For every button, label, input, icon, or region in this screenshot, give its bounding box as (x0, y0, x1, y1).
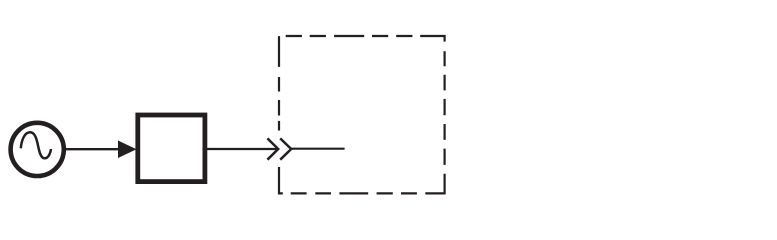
connector chevron 1 (267, 138, 278, 159)
dashed enclosure box (279, 36, 445, 193)
wire stub inside enclosure (291, 148, 344, 150)
connector chevron 2 (280, 138, 291, 159)
wire from AC source to block (63, 148, 122, 150)
signal-flow arrowhead (118, 141, 137, 159)
AC source (11, 123, 64, 176)
block (rectangular two-port) (138, 115, 205, 182)
wire from block to connector (206, 148, 276, 150)
